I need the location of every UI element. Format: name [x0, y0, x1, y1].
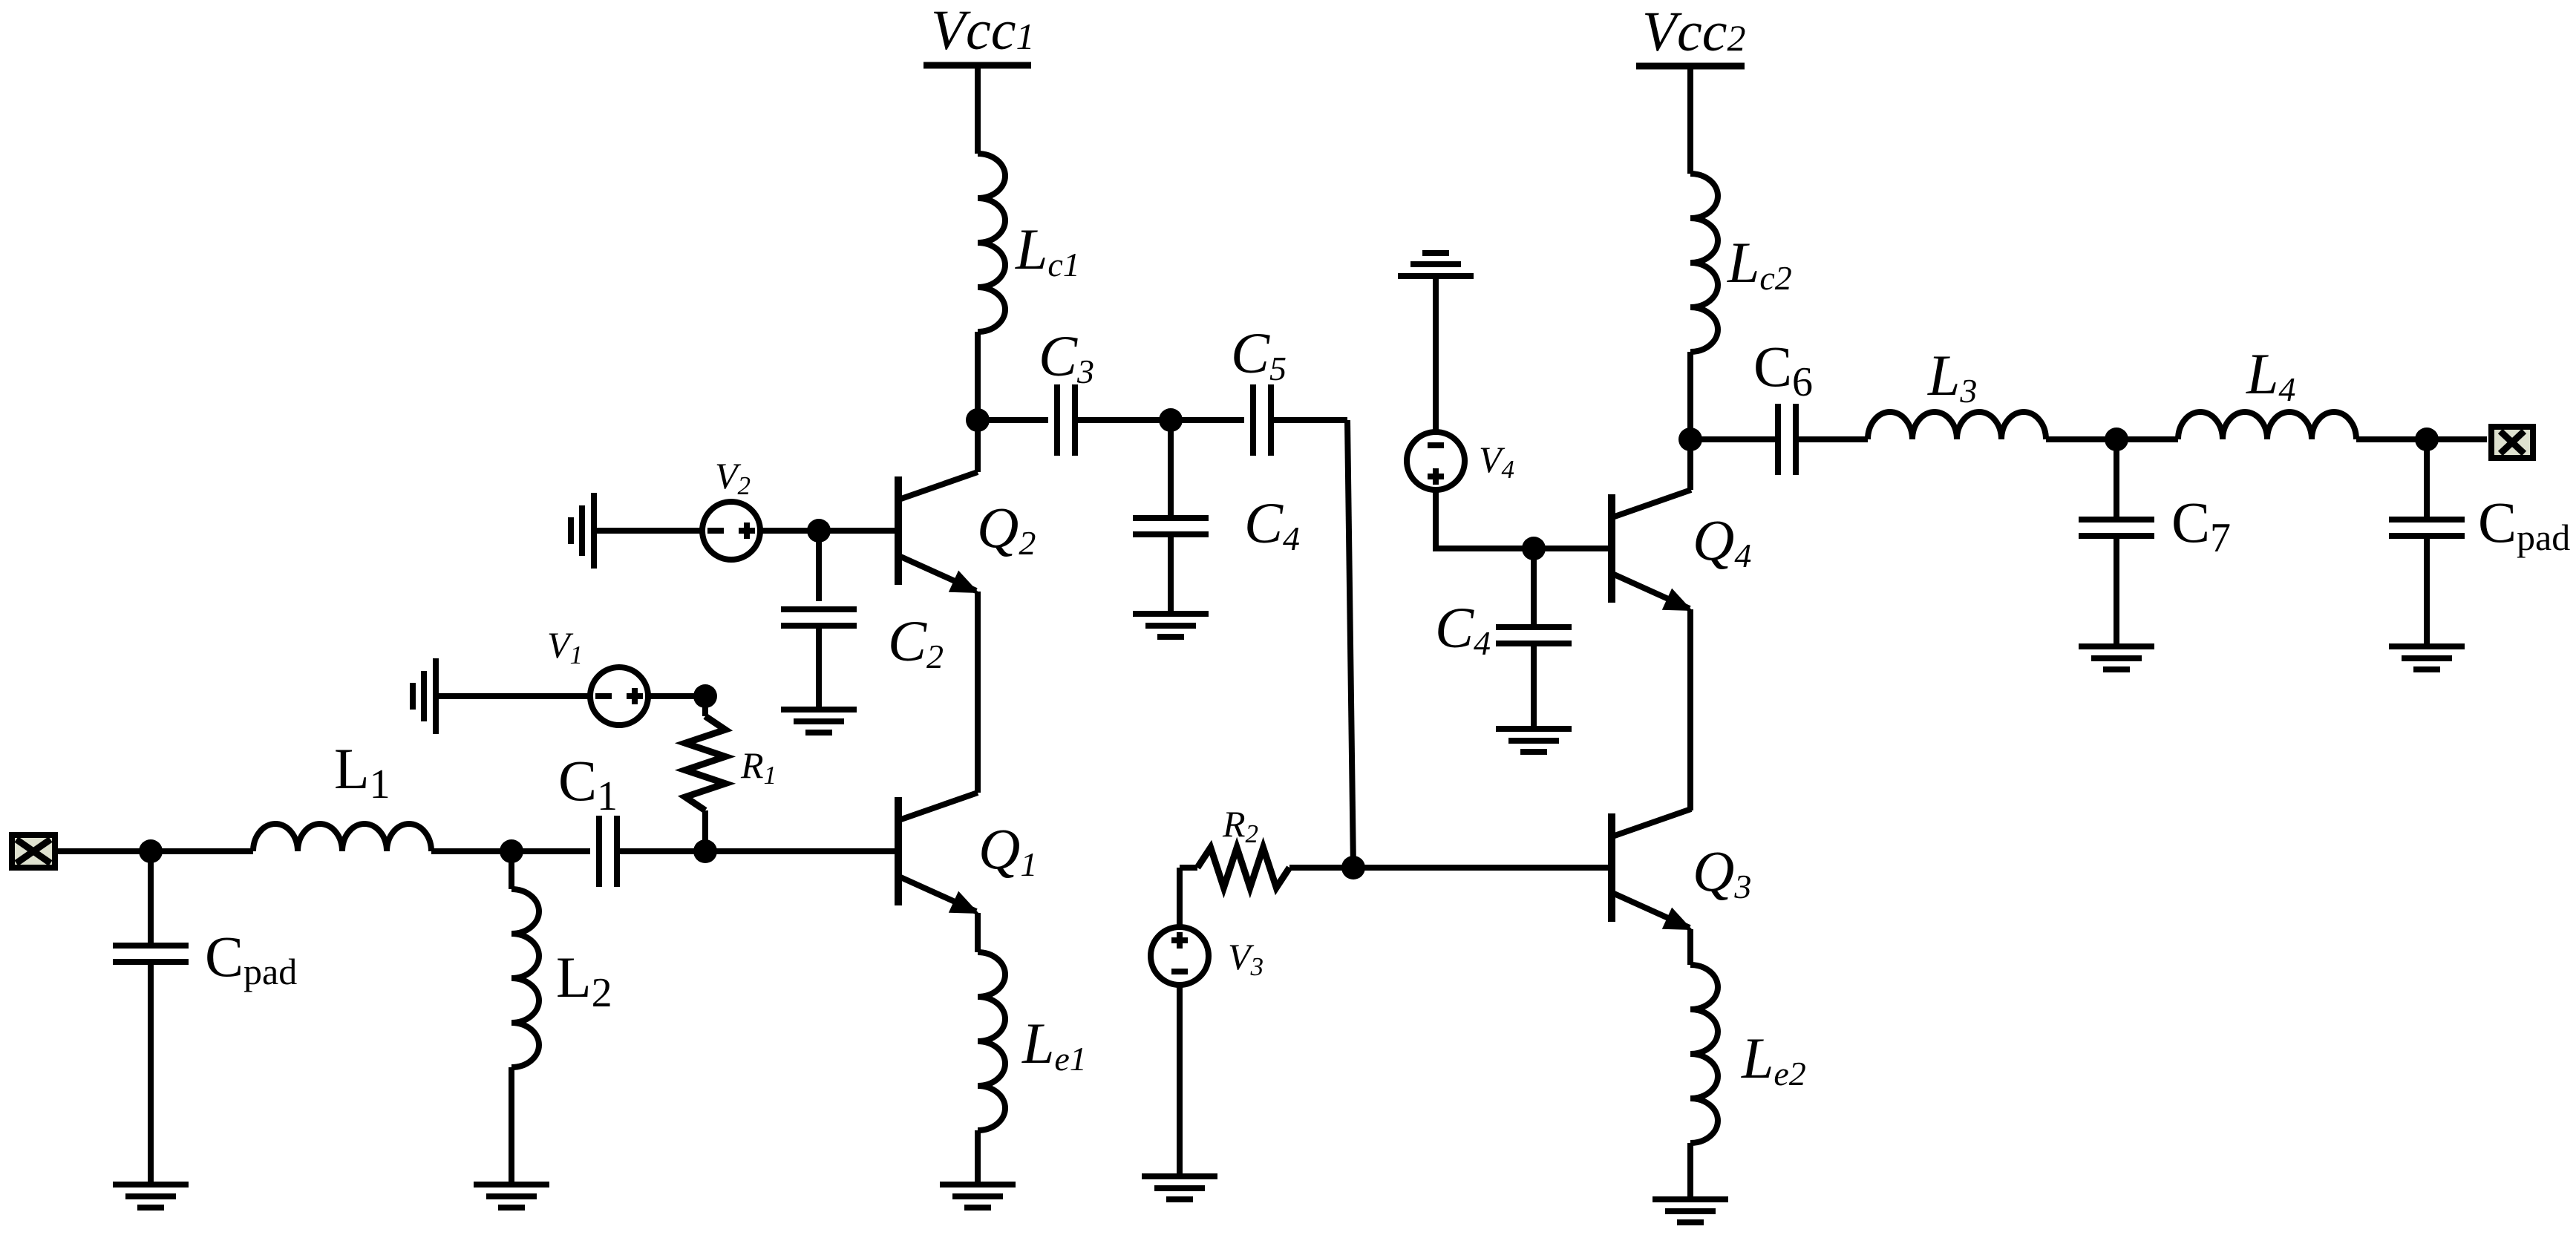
svg-text:V: V [1642, 1, 1682, 63]
source V4 [1407, 432, 1465, 490]
wire node A to L1 [151, 848, 253, 854]
wire Q1 collector to Q2 emitter [975, 592, 981, 793]
ground (C7) [2079, 646, 2154, 669]
node E junction (Q2 base) [807, 519, 831, 543]
node J junction (Q4 collector) [1678, 427, 1702, 451]
inductor Le2 [1690, 965, 1718, 1143]
wire node L to Cpad2 [2424, 439, 2430, 520]
node D junction (V1/R1) [693, 684, 717, 708]
wire C4b to ground [1531, 643, 1537, 726]
wire Cpad2 to ground [2424, 536, 2430, 643]
node G junction [1159, 408, 1183, 432]
node C junction (R1/base) [693, 839, 717, 863]
resistor R2 [1197, 848, 1289, 888]
output port P2 [2491, 427, 2533, 458]
wire node I to Q4 base [1534, 546, 1612, 551]
wire node G to C5 [1171, 417, 1244, 423]
wire R2 to node H [1289, 865, 1353, 871]
capacitor C1 [599, 816, 617, 887]
wire node L to output port [2427, 436, 2487, 442]
wire node J to Lc2 [1687, 352, 1693, 439]
inductor L4 [2178, 412, 2356, 439]
wire input to node A [58, 848, 151, 854]
ground (output Cpad) [2389, 646, 2465, 669]
wire L1 to node B [431, 848, 511, 854]
wire V2 to node E [760, 528, 819, 534]
inductor L3 [1868, 412, 2046, 439]
inductor Le1 [978, 952, 1005, 1130]
wire Q3 emitter to Le2 [1687, 929, 1693, 965]
wire V4 ground to V4 [1433, 279, 1439, 432]
transistor Q1 [898, 793, 979, 914]
ground (C4 first) [1133, 614, 1209, 637]
ground (C4 second) [1496, 729, 1572, 752]
ground (V4, inverted) [1398, 253, 1474, 276]
wire V2 ground to V2 [597, 528, 702, 534]
wire node F to Lc1 [975, 332, 981, 420]
wire V3 riser [1177, 868, 1183, 928]
node I junction (Q4 base) [1522, 537, 1546, 560]
node H junction (Q3 base) [1341, 856, 1365, 879]
ground (V3) [1142, 1176, 1217, 1199]
wire node H to Q3 base [1353, 865, 1612, 871]
wire V4 to corner [1436, 490, 1534, 548]
wire Cpad1 to ground [148, 962, 154, 1182]
transistor Q2 [898, 472, 979, 593]
wire V3 to ground [1177, 985, 1183, 1173]
svg-text:V: V [931, 0, 971, 62]
ground (Le2) [1653, 1199, 1728, 1222]
ground (V1) [413, 658, 436, 734]
wire node K to C7 [2114, 439, 2119, 520]
wire C2 to ground [816, 626, 822, 707]
resistor R1 [685, 716, 725, 810]
wire node E to C2 [816, 531, 822, 601]
ground (Le1) [940, 1185, 1016, 1208]
node F junction (Q2 collector) [966, 408, 990, 432]
wire C3 to node G [1075, 417, 1171, 423]
transistor Q4 [1612, 490, 1693, 611]
wire C1 to Q1 base [617, 848, 898, 854]
capacitor C7 [2079, 520, 2154, 536]
node B junction [500, 839, 523, 863]
wire C7 to ground [2114, 536, 2119, 643]
wire V1 ground to V1 [439, 693, 590, 699]
wire Q4 emitter to Q3 collector [1687, 609, 1693, 810]
capacitor C2 [781, 609, 857, 626]
node L junction [2415, 427, 2439, 451]
inductor L2 [511, 889, 539, 1067]
wire Q1 emitter to Le1 [975, 913, 981, 952]
capacitor Cpad (input) [113, 946, 189, 962]
power rail Vcc2 [1636, 63, 1745, 70]
wire C5 corner down to node H [1347, 420, 1353, 868]
source V2 [702, 502, 760, 560]
source V3 [1151, 927, 1209, 985]
wire node K to L4 [2116, 436, 2178, 442]
wire node F to C3 [978, 417, 1048, 423]
transistor Q3 [1612, 809, 1693, 930]
capacitor C4 (first) [1133, 518, 1209, 534]
wire C4a to ground [1168, 534, 1174, 611]
capacitor C5 [1253, 384, 1271, 456]
wire C6 to L3 [1796, 436, 1868, 442]
inductor Lc1 [978, 154, 1005, 332]
ground (V2) [571, 493, 594, 569]
wire node E to Q2 base [819, 528, 898, 534]
wire node G to C4a [1168, 420, 1174, 518]
wire node B to C1 [511, 848, 590, 854]
wire V1 to node D [648, 693, 705, 699]
source V1 [590, 667, 648, 725]
wire V3 corner to R2 [1180, 865, 1197, 871]
node A junction [139, 839, 163, 863]
wire Lc2 to Vcc2 [1687, 66, 1693, 174]
wire R1 to node C [702, 810, 708, 851]
wire Q2 collector to node F [975, 420, 981, 472]
wire Q4 collector to node J [1687, 439, 1693, 490]
wire node I to C4b [1531, 548, 1537, 627]
wire C5 to corner [1271, 417, 1347, 423]
wire Lc1 to Vcc1 [975, 65, 981, 154]
capacitor C6 [1778, 404, 1796, 475]
wire Le2 to ground [1687, 1143, 1693, 1196]
wire Le1 to ground [975, 1130, 981, 1182]
inductor L1 [253, 824, 431, 851]
wire L2 to ground [509, 1067, 514, 1182]
wire node J to C6 [1690, 436, 1778, 442]
wire L3 to node K [2046, 436, 2116, 442]
wire node B to L2 [509, 851, 514, 889]
capacitor C3 [1057, 384, 1075, 456]
node K junction [2105, 427, 2128, 451]
power rail Vcc1 [923, 62, 1031, 69]
ground (input Cpad) [113, 1185, 189, 1208]
wire node D to R1 [702, 696, 708, 716]
wire node A to Cpad1 [148, 851, 154, 946]
capacitor C4 (second) [1496, 627, 1572, 643]
inductor Lc2 [1690, 174, 1718, 352]
ground (L2) [474, 1185, 549, 1208]
capacitor Cpad (output) [2389, 520, 2465, 536]
wire L4 to node L [2356, 436, 2427, 442]
ground (C2) [781, 710, 857, 733]
input port P1 [12, 835, 55, 868]
